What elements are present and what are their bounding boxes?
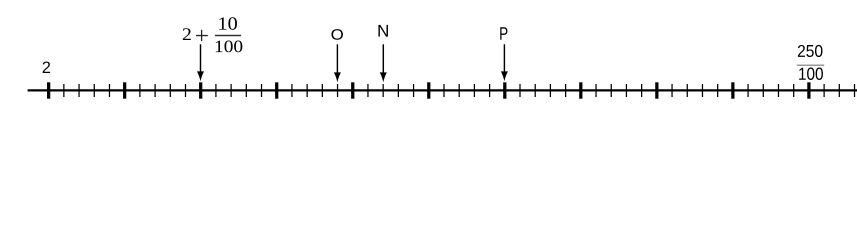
number line axis [28,89,857,91]
label 2 (left endpoint value) [43,61,50,73]
label N [378,25,388,37]
arrow from 2+10/100 label to tick 2.10 [197,44,204,81]
label 2 + 10/100 [183,17,243,52]
arrow from O to tick 2.19 [334,44,341,82]
minor tick marks (hundredths) [64,84,855,97]
arrow from N to tick 2.22 [380,44,387,82]
major tick marks (five-hundredths) [49,82,809,98]
label O [331,29,343,40]
label P [500,27,507,39]
label 250/100 (right endpoint value) [797,45,824,80]
arrow from P to tick 2.30 [501,44,508,81]
